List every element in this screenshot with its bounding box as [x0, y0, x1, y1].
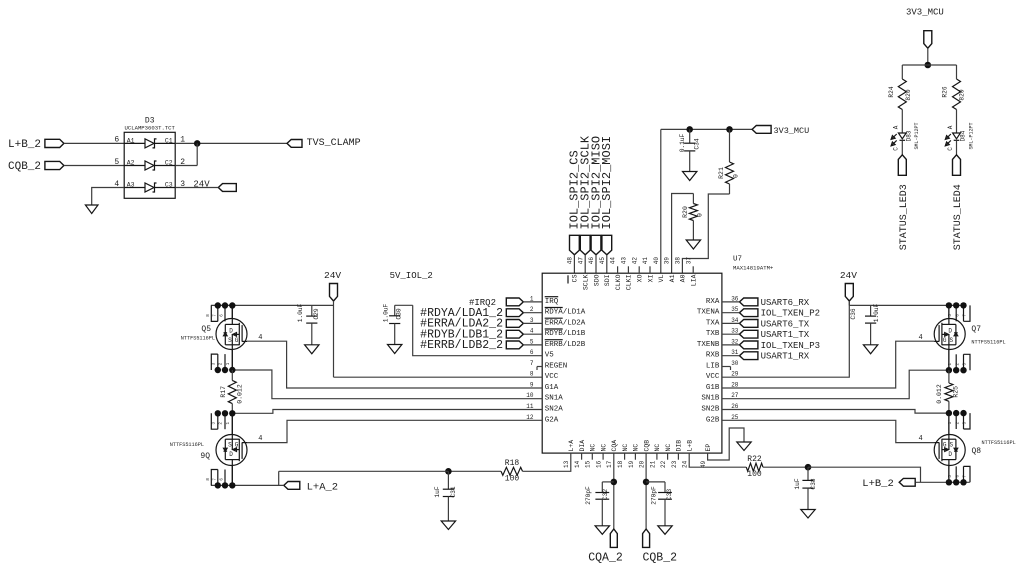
- wire: [722, 420, 934, 442]
- svg-text:12: 12: [526, 414, 534, 421]
- pin 14: [581, 453, 583, 460]
- node junction: [194, 140, 201, 147]
- svg-text:G: G: [943, 442, 947, 449]
- svg-text:21: 21: [649, 460, 656, 468]
- svg-text:9Q: 9Q: [200, 452, 210, 461]
- wire: [722, 301, 849, 377]
- pin names left: [545, 297, 586, 425]
- pin 4 gate Q7: [919, 334, 923, 342]
- wire: [231, 413, 233, 434]
- svg-text:L+B: L+B: [687, 440, 694, 452]
- ground: [388, 345, 402, 354]
- svg-text:1uF: 1uF: [794, 478, 801, 489]
- wire: [602, 481, 614, 483]
- wire: [808, 467, 921, 482]
- svg-text:CQA_2: CQA_2: [588, 552, 623, 565]
- svg-text:0.012: 0.012: [237, 384, 244, 404]
- svg-text:SN2B: SN2B: [701, 406, 720, 414]
- wire: [523, 301, 542, 303]
- ground: [85, 205, 98, 214]
- wire: [64, 165, 124, 167]
- svg-text:34: 34: [731, 317, 739, 324]
- svg-text:NC: NC: [633, 444, 640, 452]
- wire: [722, 341, 934, 388]
- ground: [801, 510, 815, 519]
- port IOL_TXEN_P3: [740, 341, 821, 351]
- port STATUS_LED3: [898, 155, 910, 250]
- svg-text:RDYA/LD1A: RDYA/LD1A: [545, 309, 586, 317]
- capacitor C33: [651, 482, 674, 526]
- node drain pins Q8: [946, 466, 970, 486]
- wire: [708, 428, 744, 460]
- pin 21: [656, 453, 658, 460]
- svg-text:G1B: G1B: [706, 384, 720, 392]
- svg-text:23: 23: [671, 460, 678, 468]
- svg-text:R21: R21: [718, 167, 725, 179]
- wire: [413, 305, 543, 355]
- svg-text:XO: XO: [637, 274, 644, 282]
- port L+A_2: [284, 481, 338, 493]
- svg-text:SN1B: SN1B: [701, 395, 720, 403]
- wire: [175, 165, 197, 167]
- node junction: [805, 464, 812, 471]
- svg-text:S: S: [949, 337, 953, 344]
- svg-text:C: C: [893, 147, 900, 151]
- svg-text:STATUS_LED4: STATUS_LED4: [953, 184, 964, 250]
- svg-text:33: 33: [731, 328, 739, 335]
- resistor R17: [220, 370, 244, 413]
- svg-text:MAX14819ATM+: MAX14819ATM+: [733, 265, 774, 272]
- svg-text:A2: A2: [127, 160, 135, 167]
- wire: [722, 410, 948, 414]
- svg-text:L+A: L+A: [568, 440, 575, 452]
- svg-text:4: 4: [919, 334, 923, 342]
- svg-text:11: 11: [526, 403, 534, 410]
- svg-text:S: S: [949, 442, 953, 449]
- node 5V_IOL_2: [390, 271, 433, 281]
- svg-text:IRQ: IRQ: [545, 298, 559, 306]
- svg-text:45: 45: [599, 257, 606, 265]
- svg-text:1.0uF: 1.0uF: [382, 303, 389, 322]
- svg-text:L+B_2: L+B_2: [8, 139, 41, 151]
- wire: [92, 188, 125, 206]
- svg-text:0.1uF: 0.1uF: [679, 133, 686, 152]
- pin 4 gate Q5: [258, 334, 262, 342]
- node junction: [726, 126, 733, 133]
- svg-text:1uF: 1uF: [434, 486, 441, 497]
- pin numbers bottom: [563, 460, 707, 468]
- port CQA_2: [588, 529, 623, 565]
- wire: [595, 255, 597, 273]
- svg-text:TXENB: TXENB: [697, 341, 720, 349]
- port TVS_CLAMP: [287, 138, 361, 149]
- svg-text:3V3_MCU: 3V3_MCU: [774, 126, 810, 136]
- svg-text:24: 24: [682, 460, 689, 468]
- transistor Q8: [934, 435, 1016, 466]
- wire: [948, 350, 950, 371]
- svg-text:6: 6: [114, 136, 119, 145]
- svg-text:3: 3: [530, 317, 534, 324]
- wire: [279, 470, 449, 472]
- pin 18: [624, 453, 626, 460]
- port L+B_2: [8, 139, 64, 151]
- wire: [573, 255, 575, 273]
- svg-text:100: 100: [505, 474, 520, 483]
- pin 4 gate Q9: [258, 435, 262, 443]
- diode D3 UCLAMP3603T.TCT: [114, 117, 185, 199]
- svg-text:46: 46: [588, 257, 595, 265]
- svg-text:C2: C2: [165, 160, 173, 167]
- svg-text:D: D: [229, 327, 233, 334]
- node source pins Q8: [946, 410, 970, 435]
- wire: [247, 420, 542, 442]
- node junction: [925, 62, 932, 69]
- svg-text:A0: A0: [680, 274, 687, 282]
- svg-text:3V3_MCU: 3V3_MCU: [906, 7, 944, 17]
- svg-text:R24: R24: [888, 86, 895, 97]
- svg-text:820: 820: [905, 89, 912, 100]
- svg-text:47: 47: [577, 257, 584, 265]
- svg-text:32: 32: [731, 338, 739, 345]
- wire: [722, 333, 740, 335]
- svg-text:TVS_CLAMP: TVS_CLAMP: [307, 138, 361, 149]
- svg-text:0: 0: [733, 174, 740, 178]
- svg-text:C38: C38: [810, 478, 817, 489]
- pin 42: [638, 266, 640, 273]
- svg-text:A: A: [947, 125, 954, 129]
- svg-text:SCLK: SCLK: [583, 274, 590, 290]
- pin 37: [692, 266, 694, 273]
- svg-text:16: 16: [596, 460, 603, 468]
- svg-text:SML-P12PT: SML-P12PT: [914, 122, 920, 149]
- svg-text:NC: NC: [590, 444, 597, 452]
- port 3V3_MCU: [752, 126, 809, 136]
- svg-text:C34: C34: [694, 138, 701, 149]
- svg-text:CQA: CQA: [611, 440, 618, 452]
- svg-text:D83: D83: [906, 130, 913, 141]
- svg-text:R22: R22: [747, 455, 762, 464]
- svg-text:C1: C1: [165, 138, 173, 145]
- resistor R18: [501, 459, 523, 483]
- svg-text:C: C: [947, 147, 954, 151]
- svg-text:SN2A: SN2A: [545, 406, 564, 414]
- svg-text:SDI: SDI: [604, 274, 611, 286]
- port 3V3_MCU: [906, 7, 944, 48]
- svg-text:Q8: Q8: [972, 447, 982, 456]
- wire: [661, 128, 752, 130]
- port IOL_TXEN_P2: [740, 309, 821, 319]
- svg-text:4: 4: [919, 435, 923, 443]
- wire: [448, 470, 501, 472]
- svg-text:NTTFS5116PL: NTTFS5116PL: [982, 440, 1016, 446]
- svg-text:RDYB/LD1B: RDYB/LD1B: [545, 330, 586, 338]
- port USART6_TX: [740, 319, 810, 329]
- wire: [722, 312, 740, 314]
- svg-text:CQB: CQB: [643, 440, 650, 452]
- wire: [231, 350, 233, 371]
- svg-text:1.0uF: 1.0uF: [873, 303, 880, 322]
- wire: [948, 305, 950, 318]
- wire: [231, 466, 233, 486]
- wire: [763, 466, 808, 468]
- node drain pins Q5: [207, 302, 236, 321]
- pin 4 gate Q8: [919, 435, 923, 443]
- svg-text:G2B: G2B: [706, 416, 720, 424]
- node junction: [611, 479, 618, 486]
- port 24V: [324, 270, 341, 301]
- wire: [606, 255, 608, 273]
- wire: [232, 370, 542, 399]
- svg-text:0: 0: [697, 213, 704, 217]
- svg-text:20: 20: [639, 460, 646, 468]
- wire: [175, 187, 218, 189]
- wire: [916, 481, 970, 483]
- svg-text:REGEN: REGEN: [545, 363, 568, 371]
- svg-text:38: 38: [675, 257, 682, 265]
- svg-text:CLKO: CLKO: [615, 274, 622, 290]
- transistor Q7: [934, 319, 1005, 350]
- ground: [863, 345, 877, 354]
- resistor R22: [746, 455, 763, 479]
- svg-text:4: 4: [530, 328, 534, 335]
- wire: [848, 301, 850, 305]
- svg-text:NC: NC: [654, 444, 661, 452]
- svg-text:VCC: VCC: [545, 373, 559, 381]
- svg-text:D: D: [948, 327, 952, 334]
- svg-text:22: 22: [660, 460, 667, 468]
- svg-text:G: G: [235, 442, 239, 449]
- svg-text:SDO: SDO: [593, 274, 600, 286]
- svg-text:7: 7: [530, 360, 534, 367]
- svg-text:XI: XI: [647, 274, 654, 282]
- svg-text:41: 41: [642, 257, 649, 265]
- wire: [722, 322, 740, 324]
- svg-text:D84: D84: [960, 130, 967, 141]
- capacitor C34: [679, 129, 701, 171]
- svg-text:24V: 24V: [840, 270, 857, 281]
- svg-text:USART6_RX: USART6_RX: [761, 298, 810, 308]
- svg-text:5: 5: [530, 338, 534, 345]
- wire: [523, 312, 542, 314]
- svg-text:30: 30: [731, 360, 739, 367]
- svg-text:STATUS_LED3: STATUS_LED3: [899, 184, 910, 250]
- svg-text:CQB_2: CQB_2: [643, 552, 678, 565]
- resistor R20: [682, 194, 704, 241]
- svg-text:31: 31: [731, 349, 739, 356]
- capacitor C29: [297, 303, 320, 344]
- svg-text:TXA: TXA: [706, 319, 720, 327]
- wire: [196, 143, 198, 165]
- svg-text:44: 44: [610, 257, 617, 265]
- svg-text:DIB: DIB: [676, 440, 683, 452]
- svg-text:29: 29: [731, 371, 739, 378]
- svg-text:R17: R17: [220, 386, 227, 398]
- svg-text:0.012: 0.012: [936, 384, 943, 404]
- resistor R24: [888, 76, 912, 118]
- svg-text:L+B_2: L+B_2: [862, 478, 894, 490]
- svg-text:820: 820: [959, 89, 966, 100]
- wire: [247, 341, 542, 388]
- svg-text:26: 26: [731, 403, 739, 410]
- svg-text:4: 4: [258, 435, 262, 443]
- transistor Q5: [181, 319, 247, 350]
- wire: [523, 453, 571, 471]
- port USART1_TX: [740, 330, 810, 340]
- svg-text:#ERRB/LDB2_2: #ERRB/LDB2_2: [420, 339, 503, 352]
- diode D83: [891, 118, 920, 155]
- svg-text:USART6_TX: USART6_TX: [761, 319, 810, 329]
- pin 7 REGEN: [537, 367, 542, 371]
- svg-text:A1: A1: [669, 274, 676, 282]
- svg-text:NC: NC: [600, 444, 607, 452]
- svg-text:13: 13: [563, 460, 570, 468]
- pin 30 LIB: [722, 367, 731, 371]
- svg-text:VL: VL: [658, 274, 665, 282]
- svg-text:270pF: 270pF: [585, 486, 592, 505]
- pin 19: [634, 453, 636, 460]
- op-amp U7 MAX14819ATM+ body: [542, 256, 774, 454]
- svg-text:USART1_TX: USART1_TX: [761, 330, 810, 340]
- svg-text:C31: C31: [450, 486, 457, 497]
- svg-text:17: 17: [606, 460, 613, 468]
- svg-text:15: 15: [585, 460, 592, 468]
- pin 22: [667, 453, 669, 460]
- svg-text:1.0uF: 1.0uF: [297, 303, 304, 322]
- wire: [689, 453, 746, 467]
- svg-text:Q5: Q5: [201, 325, 211, 334]
- svg-text:NC: NC: [622, 444, 629, 452]
- wire: [333, 301, 335, 377]
- svg-text:10: 10: [526, 392, 534, 399]
- ground: [737, 442, 751, 451]
- wire: [395, 304, 413, 306]
- wire: [948, 466, 950, 483]
- svg-text:C30: C30: [396, 308, 403, 319]
- svg-text:LIB: LIB: [706, 363, 720, 371]
- svg-text:1: 1: [530, 295, 534, 302]
- node source pins Q7: [946, 350, 970, 374]
- svg-text:43: 43: [621, 257, 628, 265]
- ground: [683, 172, 697, 181]
- port #ERRB/LDB2_2: [420, 339, 523, 352]
- svg-text:25: 25: [731, 414, 739, 421]
- pin 16: [602, 453, 604, 460]
- port #RDYA/LDA1_2: [420, 307, 523, 320]
- svg-text:ERRA/LD2A: ERRA/LD2A: [545, 319, 586, 327]
- port CQB_2: [643, 529, 678, 565]
- wire: [901, 65, 903, 76]
- wire: [645, 453, 647, 529]
- node junction: [643, 479, 650, 486]
- wire: [722, 355, 740, 357]
- svg-text:L+A_2: L+A_2: [307, 481, 339, 493]
- svg-text:R26: R26: [942, 86, 949, 97]
- diode D84: [945, 118, 974, 155]
- svg-text:G: G: [235, 337, 239, 344]
- pin 41: [649, 266, 651, 273]
- svg-text:V5: V5: [545, 352, 555, 360]
- svg-text:R18: R18: [505, 459, 520, 468]
- svg-text:NTTFS5116PL: NTTFS5116PL: [170, 442, 204, 448]
- wire: [722, 301, 740, 303]
- svg-text:NC: NC: [665, 444, 672, 452]
- svg-text:4: 4: [258, 334, 262, 342]
- wire: [613, 453, 615, 529]
- svg-text:8: 8: [530, 371, 534, 378]
- port IOL_SPI2_MISO: [589, 136, 603, 255]
- pin names right: [697, 298, 720, 424]
- wire: [956, 65, 958, 76]
- port IOL_SPI2_CS: [568, 150, 582, 255]
- svg-text:Q7: Q7: [971, 325, 981, 334]
- port IOL_SPI2_MOSI: [600, 136, 614, 255]
- svg-text:19: 19: [628, 460, 635, 468]
- svg-text:C29: C29: [313, 308, 320, 319]
- svg-text:G2A: G2A: [545, 416, 559, 424]
- svg-text:NTTFS5116PL: NTTFS5116PL: [971, 340, 1005, 346]
- wire: [334, 376, 543, 378]
- svg-text:18: 18: [617, 460, 624, 468]
- wire: [232, 410, 542, 414]
- ground: [658, 526, 672, 535]
- wire: [211, 304, 334, 306]
- capacitor C31: [434, 471, 457, 521]
- port STATUS_LED4: [953, 155, 964, 250]
- port #IRQ2: [469, 298, 523, 308]
- resistor R21: [718, 129, 740, 194]
- svg-text:2: 2: [530, 306, 534, 313]
- svg-text:IOL_TXEN_P2: IOL_TXEN_P2: [761, 309, 820, 319]
- port USART1_RX: [740, 352, 810, 362]
- wire: [672, 194, 694, 274]
- capacitor C30: [382, 303, 402, 344]
- port L+B_2: [862, 478, 915, 490]
- svg-text:IOL_TXEN_P3: IOL_TXEN_P3: [761, 341, 820, 351]
- svg-text:A: A: [893, 125, 900, 129]
- svg-text:R25: R25: [953, 386, 960, 398]
- wire: [523, 333, 542, 335]
- svg-text:A1: A1: [127, 138, 135, 145]
- node junction: [686, 126, 693, 133]
- ground: [441, 521, 455, 530]
- port CQB_2: [8, 161, 64, 173]
- wire: [660, 129, 662, 273]
- svg-text:EP: EP: [705, 444, 712, 452]
- wire: [682, 194, 729, 273]
- pin numbers left: [526, 295, 534, 420]
- wire: [231, 306, 233, 319]
- svg-text:SML-P12PT: SML-P12PT: [968, 122, 974, 149]
- pin names bottom: [568, 440, 712, 452]
- port 24V: [840, 270, 857, 301]
- node source pins Q9: [211, 410, 235, 434]
- ground: [686, 240, 700, 249]
- wire: [646, 481, 665, 483]
- svg-text:DIA: DIA: [579, 440, 586, 452]
- pin 44: [617, 266, 619, 273]
- svg-text:RXA: RXA: [706, 298, 720, 306]
- svg-text:TXENA: TXENA: [697, 309, 720, 317]
- wire: [902, 64, 956, 66]
- svg-text:36: 36: [731, 295, 739, 302]
- svg-text:24V: 24V: [324, 270, 341, 281]
- port #ERRA/LDA2_2: [420, 318, 523, 331]
- capacitor C38: [794, 467, 817, 509]
- svg-text:28: 28: [731, 382, 739, 389]
- svg-text:48: 48: [567, 257, 574, 265]
- svg-text:NTTFS5116PL: NTTFS5116PL: [181, 336, 215, 342]
- port IOL_SPI2_SCLK: [579, 135, 593, 255]
